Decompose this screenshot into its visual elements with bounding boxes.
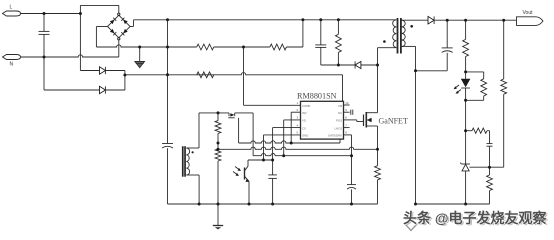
svg-text:FB: FB bbox=[338, 104, 342, 108]
svg-text:GATE/DRV: GATE/DRV bbox=[328, 134, 342, 138]
svg-text:VD: VD bbox=[302, 119, 306, 123]
svg-text:COMP: COMP bbox=[302, 104, 311, 108]
svg-text:CS: CS bbox=[302, 126, 306, 130]
svg-text:Vout: Vout bbox=[523, 10, 534, 16]
svg-text:INV: INV bbox=[302, 111, 307, 115]
svg-text:PGS: PGS bbox=[336, 119, 342, 123]
svg-text:L: L bbox=[10, 5, 13, 11]
svg-text:GND: GND bbox=[302, 134, 308, 138]
svg-text:RM8801SN: RM8801SN bbox=[297, 92, 337, 101]
svg-text:GaNFET: GaNFET bbox=[379, 116, 408, 125]
svg-text:头条 @电子发烧友观察: 头条 @电子发烧友观察 bbox=[403, 210, 548, 226]
svg-text:10: 10 bbox=[345, 101, 349, 105]
svg-text:N: N bbox=[10, 62, 14, 68]
svg-text:NC: NC bbox=[338, 111, 342, 115]
svg-text:LHCS: LHCS bbox=[335, 126, 343, 130]
